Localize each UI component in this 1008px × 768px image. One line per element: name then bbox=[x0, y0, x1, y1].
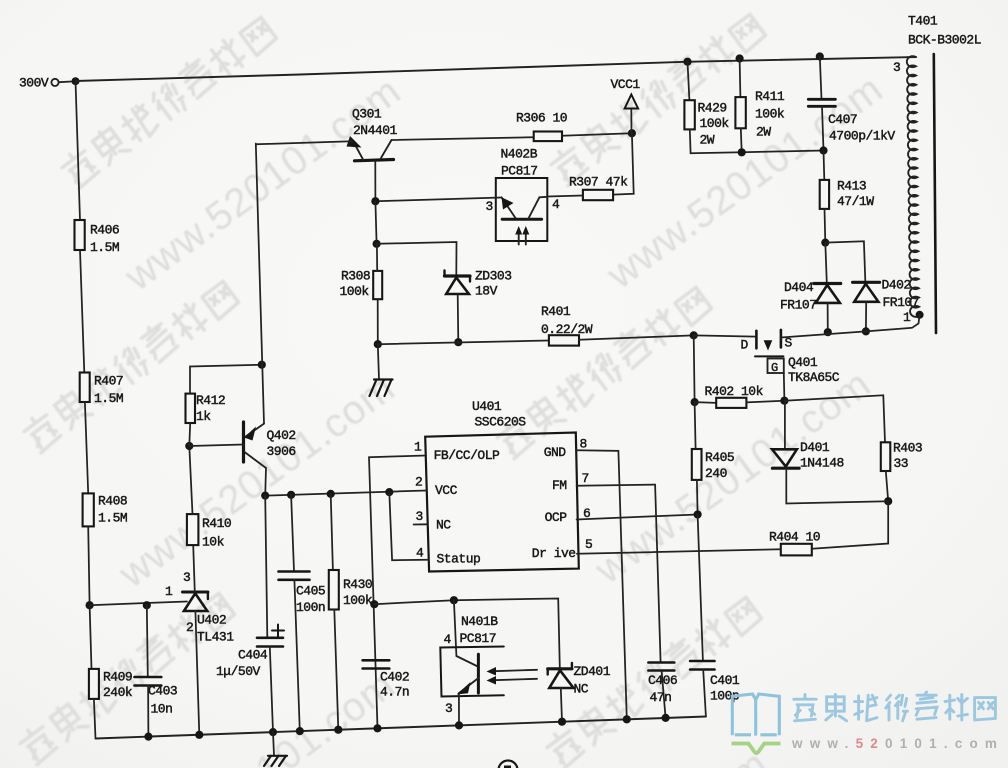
svg-text:OCP: OCP bbox=[545, 510, 568, 525]
wire R308 bottom lead bbox=[377, 299, 379, 344]
svg-text:NC: NC bbox=[436, 518, 451, 533]
wire VCC rail to IC pin2 bbox=[265, 491, 426, 496]
svg-text:T401: T401 bbox=[908, 14, 938, 29]
svg-text:300V: 300V bbox=[19, 76, 49, 91]
wire bottom ground bus bbox=[96, 717, 706, 739]
wire IC pin8 GND line bbox=[576, 450, 627, 719]
svg-text:TL431: TL431 bbox=[197, 630, 234, 645]
shunt regulator U402 TL431 bbox=[165, 570, 234, 645]
svg-text:5: 5 bbox=[585, 537, 592, 552]
svg-text:1.5M: 1.5M bbox=[90, 240, 119, 255]
svg-text:C406: C406 bbox=[648, 673, 677, 688]
logo green swoosh bbox=[732, 744, 781, 754]
svg-text:R308: R308 bbox=[341, 269, 370, 284]
svg-text:G: G bbox=[771, 361, 778, 375]
wire base node down to R308 node bbox=[375, 201, 376, 244]
svg-text:47n: 47n bbox=[650, 690, 672, 705]
svg-text:3: 3 bbox=[486, 199, 493, 214]
node C402 bus junction bbox=[373, 724, 381, 732]
svg-text:2W: 2W bbox=[756, 125, 771, 140]
node C405 bus junction bbox=[296, 727, 304, 735]
svg-text:100k: 100k bbox=[755, 107, 785, 122]
svg-text:1.5M: 1.5M bbox=[94, 391, 123, 406]
svg-text:R406: R406 bbox=[90, 223, 119, 238]
node N401B bus junction bbox=[455, 721, 463, 729]
node 300V input terminal bbox=[19, 76, 80, 91]
resistor R407 bbox=[80, 373, 124, 407]
wire R410 top to R412 node bbox=[189, 446, 192, 514]
svg-text:1: 1 bbox=[414, 440, 422, 455]
svg-text:240: 240 bbox=[705, 466, 727, 481]
svg-text:10k: 10k bbox=[202, 535, 225, 550]
svg-text:GND: GND bbox=[544, 445, 567, 460]
svg-text:BCK-B3002L: BCK-B3002L bbox=[908, 33, 981, 48]
wire C403 bottom lead bbox=[147, 686, 149, 737]
svg-text:R410: R410 bbox=[202, 516, 231, 531]
svg-text:U401: U401 bbox=[472, 399, 502, 414]
node TL431 bus junction bbox=[195, 731, 203, 739]
svg-text:4: 4 bbox=[552, 197, 560, 212]
svg-text:Q402: Q402 bbox=[267, 428, 296, 443]
resistor R410 bbox=[187, 514, 231, 549]
svg-text:10n: 10n bbox=[151, 702, 173, 717]
capacitor C401 bbox=[690, 661, 740, 717]
svg-text:C402: C402 bbox=[380, 670, 409, 685]
wire drain node down to R402 bbox=[693, 335, 696, 402]
IC U401 SSC620S bbox=[414, 399, 592, 572]
node N401B pin4 junction bbox=[450, 596, 458, 604]
node R402 left junction bbox=[691, 398, 699, 406]
node C405 rail junction bbox=[287, 491, 295, 499]
wire Q301 emitter to feed line bbox=[256, 141, 352, 144]
wire ref node to R409 bbox=[90, 605, 92, 669]
svg-text:4700p/1kV: 4700p/1kV bbox=[829, 129, 895, 144]
node R403 bottom junction bbox=[884, 497, 892, 505]
wire gate lead down bbox=[783, 373, 786, 401]
svg-text:100k: 100k bbox=[343, 593, 373, 608]
wire Q402 emitter feed vertical bbox=[256, 144, 264, 424]
capacitor C406 bbox=[648, 663, 677, 718]
wire branch to ZD303 bbox=[377, 242, 457, 275]
svg-text:1.5M: 1.5M bbox=[98, 511, 127, 526]
svg-text:R307 47k: R307 47k bbox=[569, 175, 628, 190]
transformer core line bbox=[934, 54, 936, 333]
resistor R406 bbox=[75, 220, 120, 255]
svg-text:R403: R403 bbox=[893, 441, 922, 456]
node C407 R413 junction bbox=[819, 146, 827, 154]
svg-text:VCC1: VCC1 bbox=[611, 77, 641, 92]
node emitter feed junction bbox=[258, 361, 266, 369]
svg-text:C401: C401 bbox=[710, 673, 740, 688]
resistor R412 bbox=[186, 393, 226, 424]
resistor R430 bbox=[329, 494, 373, 730]
wire Q402 collector to VCC rail bbox=[264, 468, 267, 496]
resistor R429 bbox=[684, 62, 729, 154]
svg-text:1N4148: 1N4148 bbox=[800, 456, 844, 471]
svg-text:PC817: PC817 bbox=[501, 164, 538, 179]
node C403 top junction bbox=[143, 601, 151, 609]
logo chinese title bbox=[794, 692, 996, 721]
diode D404 FR107 bbox=[780, 243, 841, 333]
node rail C407 junction bbox=[816, 52, 824, 60]
svg-text:Q401: Q401 bbox=[788, 355, 818, 370]
svg-text:7: 7 bbox=[582, 471, 589, 486]
node OCP junction bbox=[694, 510, 702, 518]
node VCC1 junction bbox=[628, 129, 636, 137]
transistor Q402 3906 bbox=[189, 422, 295, 468]
resistor R307 bbox=[569, 175, 628, 201]
zener diode ZD303 18V bbox=[445, 269, 512, 299]
svg-text:R413: R413 bbox=[837, 179, 866, 194]
wire C403 top lead bbox=[147, 605, 148, 676]
wire R308 node to R401 bbox=[378, 341, 549, 345]
svg-text:2: 2 bbox=[415, 475, 422, 490]
node GND bus junction bbox=[623, 715, 631, 723]
transistor Q301 2N4401 bbox=[347, 107, 398, 202]
node Statup rail junction bbox=[385, 488, 393, 496]
resistor R401 bbox=[541, 304, 593, 346]
wire R401 to drain node bbox=[579, 335, 694, 339]
resistor R308 bbox=[340, 244, 383, 299]
node ZD401 bus junction bbox=[558, 718, 566, 726]
svg-text:Q301: Q301 bbox=[352, 107, 382, 122]
node Q402 collector rail junction bbox=[261, 492, 269, 500]
wire drain node to MOSFET D bbox=[694, 335, 757, 336]
svg-text:2: 2 bbox=[186, 620, 193, 635]
ground below R308 node bbox=[370, 344, 393, 396]
capacitor C407 bbox=[808, 57, 895, 151]
resistor R409 bbox=[89, 669, 133, 700]
wire D401 to R403 node bbox=[786, 468, 888, 503]
node D404 source junction bbox=[824, 328, 832, 336]
svg-text:VCC: VCC bbox=[435, 483, 458, 498]
node transformer pin1 bbox=[916, 311, 924, 319]
capacitor C403 bbox=[135, 677, 178, 717]
resistor R306 bbox=[516, 111, 567, 142]
svg-text:TK8A65C: TK8A65C bbox=[788, 370, 840, 385]
wire VCC1 node down to R307 bbox=[613, 133, 634, 194]
node D402 source junction bbox=[862, 327, 870, 335]
resistor R408 bbox=[83, 493, 128, 526]
svg-text:3: 3 bbox=[416, 509, 423, 524]
wire ZD303 to bottom wire bbox=[457, 294, 460, 342]
svg-text:R411: R411 bbox=[755, 89, 785, 104]
wire R412 top branch bbox=[190, 365, 262, 394]
wire IC pin6 OCP to R405 node bbox=[577, 515, 698, 520]
wire R408 to ref node bbox=[88, 527, 89, 606]
svg-text:C403: C403 bbox=[148, 684, 177, 699]
wire IC pin7 FM line bbox=[577, 485, 661, 662]
svg-text:1: 1 bbox=[165, 584, 173, 599]
svg-text:240k: 240k bbox=[103, 685, 133, 700]
node R308 bottom junction bbox=[374, 340, 382, 348]
node R412-R410 base junction bbox=[185, 442, 193, 450]
svg-text:R306 10: R306 10 bbox=[516, 111, 567, 126]
svg-text:C407: C407 bbox=[828, 112, 857, 127]
svg-text:R408: R408 bbox=[98, 494, 127, 509]
svg-text:R402 10k: R402 10k bbox=[705, 384, 764, 399]
svg-text:3906: 3906 bbox=[267, 444, 296, 459]
svg-text:4.7n: 4.7n bbox=[380, 685, 409, 700]
svg-text:ZD303: ZD303 bbox=[475, 269, 512, 284]
wire IC pin5 Drive to R404 bbox=[577, 549, 781, 554]
resistor R402 bbox=[695, 384, 764, 408]
svg-text:4: 4 bbox=[416, 546, 424, 561]
transformer T401 primary winding bbox=[893, 14, 981, 326]
node Q301 base junction bbox=[371, 197, 379, 205]
svg-text:R401: R401 bbox=[541, 304, 571, 319]
svg-text:100n: 100n bbox=[296, 600, 325, 615]
svg-text:D404: D404 bbox=[784, 280, 814, 295]
wire R412 bottom lead bbox=[188, 423, 191, 446]
wire R407 to R408 bbox=[85, 402, 88, 493]
wire source to transformer pin1 bbox=[866, 315, 920, 332]
node R411 snubber junction bbox=[738, 148, 746, 156]
svg-text:FM: FM bbox=[552, 478, 567, 493]
wire clamp top branch to D402 bbox=[825, 241, 865, 281]
svg-text:1: 1 bbox=[903, 310, 911, 325]
svg-text:C405: C405 bbox=[296, 584, 325, 599]
node FB branch junction bbox=[370, 600, 378, 608]
LOGO bbox=[732, 692, 1005, 753]
resistor R405 bbox=[692, 402, 734, 514]
node C406 bus junction bbox=[662, 714, 670, 722]
node ref junction left column bbox=[86, 601, 94, 609]
wire R307 to optocoupler pin4 bbox=[547, 196, 583, 197]
zener diode ZD401 bbox=[548, 663, 611, 722]
svg-text:FB/CC/OLP: FB/CC/OLP bbox=[434, 448, 500, 463]
wire Q301 base to optocoupler pin3 bbox=[375, 198, 501, 202]
wire FB branch horizontal bbox=[374, 599, 560, 668]
wire R306 to VCC1 node bbox=[562, 133, 632, 136]
wire IC pin3 NC stub bbox=[414, 523, 428, 525]
diode D401 1N4148 bbox=[772, 401, 844, 471]
wire Statup pin4 bbox=[389, 492, 428, 560]
svg-text:Statup: Statup bbox=[437, 552, 481, 567]
wire R402 to gate node bbox=[746, 401, 784, 403]
node C404 bus junction bbox=[269, 728, 277, 736]
svg-text:3: 3 bbox=[183, 570, 190, 585]
node ZD303 bottom junction bbox=[454, 338, 462, 346]
svg-text:33: 33 bbox=[894, 456, 909, 471]
svg-text:R409: R409 bbox=[103, 670, 132, 685]
node gate junction bbox=[780, 397, 788, 405]
wire Q301 collector to R306 bbox=[392, 137, 534, 140]
svg-text:100k: 100k bbox=[700, 116, 730, 131]
wire IC pin1 FB line bbox=[369, 456, 426, 729]
svg-text:8: 8 bbox=[580, 437, 587, 452]
wire top 300V rail bbox=[76, 57, 917, 81]
wire N401B pin3 to bus bbox=[458, 695, 460, 726]
svg-text:2N4401: 2N4401 bbox=[353, 123, 398, 138]
capacitor C405 bbox=[279, 495, 326, 731]
svg-text:SSC620S: SSC620S bbox=[475, 415, 527, 430]
node C403 bus junction bbox=[144, 733, 152, 741]
ground bottom bus bbox=[264, 732, 287, 766]
svg-text:1k: 1k bbox=[196, 409, 211, 424]
node R430 rail junction bbox=[327, 490, 335, 498]
svg-text:4: 4 bbox=[444, 632, 452, 647]
wire ref branch to TL431 bbox=[90, 602, 187, 606]
wire gate node to R403 corner bbox=[784, 395, 885, 442]
node drain bus left junction bbox=[690, 331, 698, 339]
svg-text:www.520101.com: www.520101.com bbox=[791, 736, 1004, 751]
svg-text:D401: D401 bbox=[800, 440, 830, 455]
resistor R413 bbox=[820, 151, 875, 243]
svg-text:N402B: N402B bbox=[501, 147, 538, 162]
transistor Q401 TK8A65C MOSFET bbox=[741, 330, 840, 385]
svg-text:47/1W: 47/1W bbox=[837, 194, 874, 209]
svg-text:U402: U402 bbox=[197, 613, 226, 628]
node clamp diodes top junction bbox=[821, 239, 829, 247]
svg-text:N401B: N401B bbox=[461, 614, 498, 629]
wire left HV divider column bbox=[76, 81, 81, 220]
power VCC1 arrow bbox=[611, 77, 641, 133]
svg-text:1μ/50V: 1μ/50V bbox=[216, 664, 261, 679]
capacitor C404 polarized bbox=[216, 496, 284, 732]
wire OCP node down through C401 bbox=[698, 515, 703, 661]
resistor R404 bbox=[769, 530, 820, 556]
diode D402 FR107 bbox=[853, 278, 919, 332]
svg-text:100k: 100k bbox=[340, 284, 370, 299]
svg-text:FR107: FR107 bbox=[780, 298, 817, 313]
symbol circled mark bottom bbox=[499, 761, 518, 768]
svg-text:2W: 2W bbox=[700, 133, 715, 148]
wire R406 to R407 bbox=[80, 250, 84, 373]
svg-text:18V: 18V bbox=[475, 284, 498, 299]
node rail R411 junction bbox=[736, 54, 744, 62]
svg-text:0.22/2W: 0.22/2W bbox=[541, 322, 593, 337]
svg-text:R430: R430 bbox=[343, 577, 372, 592]
wire R403 node down to R404 bbox=[812, 501, 888, 549]
node R430 bus junction bbox=[334, 726, 342, 734]
node R308 ZD303 branch bbox=[373, 240, 381, 248]
svg-text:Dr ive: Dr ive bbox=[532, 546, 576, 561]
svg-text:NC: NC bbox=[574, 682, 589, 697]
svg-text:PC817: PC817 bbox=[460, 631, 497, 646]
svg-text:R407: R407 bbox=[94, 374, 123, 389]
wire TL431 cathode to R410 bbox=[193, 545, 195, 592]
wire R409 to ground bus bbox=[94, 699, 96, 739]
node rail R429 junction bbox=[683, 58, 691, 66]
svg-text:D402: D402 bbox=[882, 278, 911, 293]
wire MOSFET source to diodes bbox=[781, 331, 866, 337]
svg-text:R412: R412 bbox=[196, 393, 225, 408]
resistor R411 bbox=[735, 59, 785, 153]
svg-text:3: 3 bbox=[893, 60, 900, 75]
svg-text:C404: C404 bbox=[238, 648, 268, 663]
svg-text:ZD401: ZD401 bbox=[574, 664, 611, 679]
svg-text:R404 10: R404 10 bbox=[769, 530, 820, 545]
wire snubber bottom R429-R411-C407 bbox=[691, 151, 824, 154]
svg-text:3: 3 bbox=[445, 701, 452, 716]
svg-text:R405: R405 bbox=[705, 450, 734, 465]
resistor R403 bbox=[881, 441, 922, 502]
wire TL431 anode to bus bbox=[195, 611, 199, 735]
logo book icon blue pages bbox=[732, 694, 779, 736]
svg-text:R429: R429 bbox=[698, 101, 727, 116]
optocoupler N402B PC817 bbox=[486, 147, 561, 245]
capacitor C402 bbox=[363, 660, 410, 699]
optocoupler N401B PC817 bbox=[440, 600, 537, 716]
svg-text:D: D bbox=[741, 338, 749, 353]
